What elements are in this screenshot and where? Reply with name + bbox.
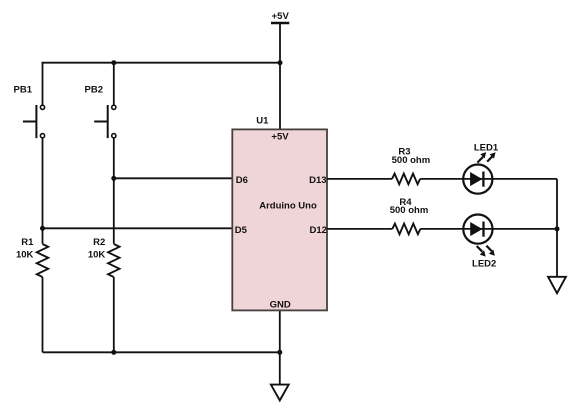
svg-text:LED1: LED1 bbox=[474, 142, 499, 153]
wire D12 to R4 bbox=[327, 228, 392, 230]
svg-text:D13: D13 bbox=[309, 175, 326, 186]
pushbutton PB2 bbox=[85, 63, 116, 179]
svg-text:D5: D5 bbox=[235, 225, 248, 236]
resistor R3 500 ohm bbox=[392, 146, 431, 184]
svg-text:+5V: +5V bbox=[272, 11, 290, 22]
wire right edge vertical bbox=[556, 179, 558, 277]
junction rail / R2 bbox=[111, 350, 116, 355]
junction PB1 / D5 wire bbox=[40, 226, 45, 231]
svg-text:D6: D6 bbox=[236, 175, 248, 186]
svg-text:10K: 10K bbox=[88, 250, 106, 261]
op-amp U1 Arduino Uno box bbox=[232, 116, 327, 311]
wire bottom ground rail bbox=[43, 351, 280, 353]
resistor R2 10K bbox=[88, 237, 120, 352]
svg-text:PB2: PB2 bbox=[85, 85, 103, 96]
pushbutton PB1 bbox=[14, 62, 45, 228]
svg-text:+5V: +5V bbox=[271, 132, 289, 143]
wire node to D6 pin bbox=[114, 177, 233, 179]
svg-text:R2: R2 bbox=[93, 237, 105, 248]
svg-text:U1: U1 bbox=[256, 116, 269, 127]
svg-text:Arduino Uno: Arduino Uno bbox=[259, 201, 317, 212]
wire R4 to right junction through LED2 bbox=[420, 228, 557, 230]
+5V supply symbol bbox=[271, 11, 289, 23]
svg-text:PB1: PB1 bbox=[14, 85, 33, 96]
svg-text:10K: 10K bbox=[16, 250, 34, 261]
wire node to D5 pin bbox=[43, 227, 233, 229]
resistor R4 500 ohm bbox=[390, 197, 429, 234]
wire D13 to R3 bbox=[327, 178, 392, 180]
ground symbol right bbox=[548, 277, 566, 293]
wire PB2 node down to R2 bbox=[113, 178, 115, 244]
junction top rail / +5V line bbox=[278, 60, 283, 65]
svg-text:500 ohm: 500 ohm bbox=[390, 205, 429, 216]
junction PB2 / D6 wire bbox=[111, 176, 116, 181]
wire U1 GND pin bbox=[279, 310, 281, 385]
junction right vertical / LED2 row bbox=[555, 226, 560, 231]
svg-text:GND: GND bbox=[270, 300, 291, 311]
wire PB1 bottom bbox=[42, 138, 44, 228]
wire R3 to right corner through LED1 bbox=[420, 178, 557, 180]
wire PB2 bottom bbox=[113, 138, 115, 178]
LED2 emission arrows bbox=[477, 246, 483, 252]
LED1 emission arrows bbox=[477, 157, 483, 163]
LED LED2 bbox=[420, 215, 557, 270]
ground symbol bottom bbox=[271, 385, 289, 401]
svg-text:LED2: LED2 bbox=[472, 259, 496, 270]
LED LED1 bbox=[420, 142, 557, 193]
wire top rail bbox=[42, 62, 280, 64]
junction rail / U1 GND pin bbox=[277, 350, 282, 355]
junction top rail / PB2 bbox=[111, 60, 116, 65]
svg-text:R1: R1 bbox=[21, 237, 34, 248]
resistor R1 10K bbox=[16, 228, 48, 352]
wire +5V stem to U1 pin bbox=[279, 23, 281, 129]
svg-text:500 ohm: 500 ohm bbox=[392, 155, 431, 166]
wire PB2 top bbox=[113, 63, 115, 105]
svg-text:D12: D12 bbox=[309, 225, 326, 236]
wire PB1 top bbox=[42, 62, 44, 105]
